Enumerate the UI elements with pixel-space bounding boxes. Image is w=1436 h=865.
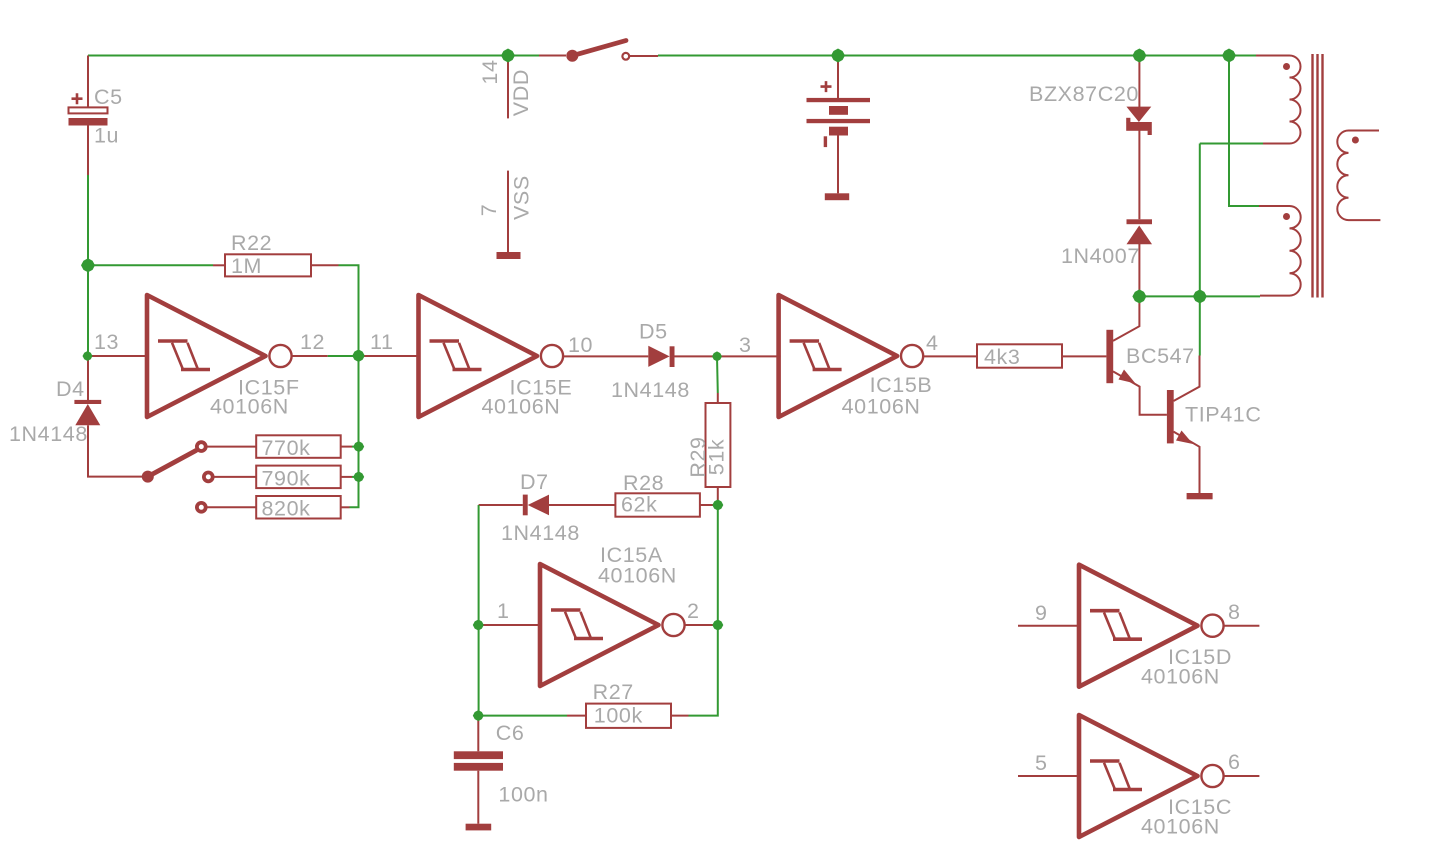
svg-text:3: 3 bbox=[739, 333, 752, 357]
svg-text:10: 10 bbox=[568, 333, 593, 357]
capacitor C5 top pin bbox=[87, 56, 89, 108]
junction VDD node bbox=[501, 49, 515, 63]
transformer T1 secondary winding bbox=[1337, 131, 1380, 221]
switch S1 contact circle bbox=[622, 53, 629, 60]
VSS pin 7 bbox=[507, 171, 509, 252]
wire winding 2 feed bbox=[1229, 56, 1259, 207]
transistor Q2 TIP41C base bar bbox=[1167, 390, 1174, 443]
junction R27/C6 node bbox=[473, 710, 484, 721]
svg-text:100n: 100n bbox=[498, 782, 548, 806]
junction rail/column node bbox=[1193, 289, 1207, 303]
inverter IC15C output pin 6 lead bbox=[1224, 775, 1260, 777]
capacitor C6 top pin bbox=[477, 716, 479, 752]
diode D5 cathode bar bbox=[670, 346, 675, 367]
resistor 770k left pin bbox=[208, 446, 257, 448]
svg-text:BC547: BC547 bbox=[1126, 344, 1195, 368]
diode D6 bottom pin bbox=[1138, 244, 1140, 296]
inverter IC15D output pin 8 lead bbox=[1224, 625, 1260, 627]
wire pin12 to node bbox=[328, 355, 359, 357]
wire top rail right bbox=[658, 55, 1256, 57]
svg-text:9: 9 bbox=[1035, 601, 1048, 625]
junction D5/pin3 node bbox=[712, 351, 722, 361]
zener diode BZX87C20 cathode bar with wings bbox=[1126, 122, 1152, 131]
svg-text:40106N: 40106N bbox=[1141, 815, 1220, 839]
transformer T1 winding 1 bbox=[1256, 56, 1301, 144]
inverter IC15A output pin 2 lead bbox=[685, 624, 718, 626]
resistor 4k3 right pin / base wire bbox=[1062, 355, 1106, 357]
transistor Q2 TIP41C emitter arrow bbox=[1176, 431, 1193, 445]
junction pin1 node bbox=[473, 620, 484, 631]
resistor 790k right pin bbox=[341, 476, 352, 478]
wire winding 1 return bbox=[1200, 143, 1263, 145]
svg-text:1N4148: 1N4148 bbox=[9, 422, 88, 446]
diode D7 left pin bbox=[479, 504, 523, 506]
battery B1 plate long 2 bbox=[807, 119, 871, 123]
svg-text:12: 12 bbox=[300, 330, 325, 354]
battery B1 top pin bbox=[837, 56, 839, 99]
svg-text:1N4148: 1N4148 bbox=[611, 378, 690, 402]
svg-text:TIP41C: TIP41C bbox=[1185, 403, 1262, 427]
inverter IC15C pin 5 lead bbox=[1018, 775, 1081, 777]
zener diode BZX87C20 top pin bbox=[1138, 56, 1140, 108]
junction pin13 node bbox=[83, 351, 93, 361]
inverter IC15E pin 11 lead bbox=[359, 355, 421, 357]
junction rail/collector node bbox=[1132, 289, 1146, 303]
resistor R27 right pin bbox=[671, 715, 689, 717]
wire bottom rail bbox=[1139, 295, 1260, 297]
svg-text:VDD: VDD bbox=[509, 69, 533, 116]
switch S1 right stub wire bbox=[630, 55, 659, 57]
transformer T1 secondary polarity dot bbox=[1352, 137, 1359, 144]
svg-text:13: 13 bbox=[94, 330, 119, 354]
resistor 820k right pin bbox=[341, 506, 350, 508]
inverter IC15F pin 13 lead bbox=[88, 355, 149, 357]
svg-text:11: 11 bbox=[370, 330, 394, 354]
diode D5 right pin bbox=[675, 355, 718, 357]
svg-text:790k: 790k bbox=[262, 466, 311, 490]
inverter IC15A pin 1 lead bbox=[479, 624, 542, 626]
battery B1 minus sign bbox=[824, 136, 827, 147]
capacitor C5 bottom pin bbox=[87, 126, 89, 176]
diode D4 bottom pin bbox=[88, 425, 142, 476]
inverter IC15E output pin 10 lead bbox=[563, 355, 648, 357]
inverter IC15D bbox=[1079, 565, 1224, 687]
transformer T1 winding 1 polarity dot bbox=[1283, 63, 1290, 70]
wire top rail left bbox=[88, 55, 539, 57]
svg-text:D5: D5 bbox=[639, 320, 668, 344]
transformer T1 core bbox=[1313, 54, 1323, 298]
diode D7 triangle bbox=[528, 495, 549, 516]
svg-text:R27: R27 bbox=[593, 680, 634, 704]
diode D6 1N4007 cathode bar bbox=[1127, 219, 1153, 224]
inverter IC15B pin 3 lead bbox=[717, 355, 781, 357]
junction 770k node bbox=[353, 441, 364, 452]
resistor R22 body bbox=[225, 254, 311, 276]
ground bar battery bbox=[825, 193, 849, 200]
resistor R27 body bbox=[586, 704, 671, 728]
svg-text:1u: 1u bbox=[94, 124, 119, 148]
inverter IC15F output pin 12 bbox=[292, 355, 328, 357]
svg-text:2: 2 bbox=[687, 599, 700, 623]
diode D7 right pin bbox=[549, 504, 615, 506]
junction battery node bbox=[831, 49, 845, 63]
wire feedback column pin12 node down to 820k row bbox=[350, 356, 359, 507]
transistor Q2 TIP41C emitter wire bbox=[1174, 432, 1200, 493]
wire R28 node down to pin2 node and R27 corner bbox=[689, 505, 718, 716]
svg-text:4k3: 4k3 bbox=[984, 345, 1020, 369]
rotary switch lever bbox=[148, 451, 196, 477]
capacitor C5 top plate bbox=[69, 107, 108, 113]
transistor Q1 BC547 collector wire bbox=[1113, 296, 1139, 341]
svg-text:1N4007: 1N4007 bbox=[1061, 244, 1140, 268]
junction C5/R22 node bbox=[81, 258, 95, 272]
resistor R27 left pin bbox=[567, 715, 586, 717]
svg-text:820k: 820k bbox=[262, 497, 311, 521]
resistor 820k body bbox=[256, 496, 341, 519]
capacitor C6 plate 2 bbox=[454, 763, 503, 771]
battery B1 plate long 1 bbox=[807, 98, 871, 102]
junction 790k node bbox=[353, 471, 364, 482]
diode D4 top pin bbox=[87, 356, 89, 400]
wire pin1 node to R27 bbox=[479, 715, 567, 717]
svg-text:5: 5 bbox=[1035, 751, 1048, 775]
inverter IC15B bbox=[779, 295, 924, 417]
junction winding feed node bbox=[1222, 49, 1236, 63]
resistor R28 right pin bbox=[700, 504, 718, 506]
wire C5 to R22 node bbox=[87, 175, 89, 265]
svg-text:4: 4 bbox=[926, 331, 939, 355]
switch S1 left stub wire bbox=[539, 55, 566, 57]
resistor 820k left pin bbox=[208, 506, 257, 508]
VDD pin 14 bbox=[507, 56, 509, 119]
inverter IC15D pin 9 lead bbox=[1018, 625, 1081, 627]
svg-text:VSS: VSS bbox=[510, 175, 534, 220]
battery B1 bottom pin bbox=[837, 136, 839, 194]
svg-text:D4: D4 bbox=[56, 377, 85, 401]
transistor Q1 BC547 emitter wire bbox=[1113, 371, 1167, 414]
svg-text:14: 14 bbox=[478, 59, 502, 84]
resistor 790k left pin bbox=[215, 476, 257, 478]
diode D4 triangle bbox=[75, 404, 100, 425]
wire winding1 return column bbox=[1199, 144, 1201, 356]
svg-text:C6: C6 bbox=[496, 721, 525, 745]
svg-text:6: 6 bbox=[1228, 750, 1241, 774]
transformer T1 winding 2 polarity dot bbox=[1283, 213, 1290, 220]
rotary switch contact 1 bbox=[197, 442, 206, 451]
resistor R29 body bbox=[706, 403, 731, 487]
svg-text:D7: D7 bbox=[520, 470, 549, 494]
resistor R22 right pin bbox=[311, 264, 339, 266]
svg-text:C5: C5 bbox=[94, 85, 123, 109]
battery B1 plus sign bbox=[821, 81, 832, 92]
svg-text:40106N: 40106N bbox=[598, 564, 677, 588]
svg-text:IC15B: IC15B bbox=[870, 373, 933, 397]
transistor Q1 BC547 base bar bbox=[1106, 330, 1113, 383]
svg-text:7: 7 bbox=[477, 204, 501, 217]
capacitor C6 plate 1 bbox=[454, 751, 503, 759]
svg-text:1N4148: 1N4148 bbox=[501, 521, 580, 545]
resistor 770k body bbox=[256, 435, 341, 458]
svg-text:62k: 62k bbox=[621, 493, 657, 517]
wire R22 right to feedback column bbox=[339, 265, 359, 356]
transistor Q1 BC547 emitter arrow bbox=[1119, 370, 1136, 384]
rotary switch contact 2 bbox=[204, 473, 213, 482]
wire zener to 1N4007 bbox=[1138, 130, 1140, 219]
inverter IC15C bbox=[1079, 715, 1224, 837]
transformer T1 winding 2 bbox=[1259, 206, 1301, 296]
svg-text:BZX87C20: BZX87C20 bbox=[1029, 82, 1139, 106]
junction pin12/11 node bbox=[352, 349, 365, 362]
junction zener node bbox=[1132, 49, 1146, 63]
resistor R22 left pin bbox=[213, 264, 225, 266]
capacitor C5 bottom plate bbox=[69, 118, 108, 126]
resistor R28 body bbox=[615, 493, 700, 516]
resistor 790k body bbox=[256, 466, 341, 489]
svg-text:8: 8 bbox=[1228, 600, 1241, 624]
wire R22 node down to pin13 node bbox=[87, 265, 89, 356]
inverter IC15E bbox=[419, 295, 564, 417]
wire 790k to column bbox=[352, 476, 359, 478]
switch S1 lever bbox=[572, 41, 626, 56]
svg-text:51k: 51k bbox=[705, 439, 729, 475]
svg-text:1M: 1M bbox=[231, 254, 262, 278]
resistor R29 bottom pin bbox=[717, 487, 719, 505]
svg-text:R28: R28 bbox=[623, 471, 664, 495]
zener diode BZX87C20 triangle bbox=[1126, 107, 1151, 122]
diode D7 cathode bar bbox=[523, 495, 528, 516]
svg-text:40106N: 40106N bbox=[482, 395, 561, 419]
inverter IC15B output pin 4 lead bbox=[923, 355, 977, 357]
battery B1 plate short 1 bbox=[829, 106, 848, 115]
ground bar C6 bbox=[466, 824, 492, 831]
inverter IC15A bbox=[540, 564, 685, 686]
transistor Q2 TIP41C collector wire bbox=[1174, 356, 1200, 402]
svg-text:770k: 770k bbox=[262, 436, 311, 460]
svg-text:40106N: 40106N bbox=[842, 395, 921, 419]
wire D7 corner down to pin1 node bbox=[478, 505, 480, 716]
wire pin3 node down to R29 bbox=[716, 356, 719, 393]
battery B1 plate short 2 bbox=[829, 127, 848, 136]
rotary switch contact 3 bbox=[197, 503, 206, 512]
svg-text:R22: R22 bbox=[231, 231, 272, 255]
diode D4 cathode bar bbox=[74, 400, 101, 404]
svg-text:100k: 100k bbox=[594, 703, 643, 727]
svg-text:40106N: 40106N bbox=[210, 395, 289, 419]
svg-text:40106N: 40106N bbox=[1141, 665, 1220, 689]
junction R29/R28 node bbox=[712, 500, 723, 511]
capacitor C6 bottom pin bbox=[477, 771, 479, 824]
inverter IC15F bbox=[147, 295, 292, 417]
wire 770k to column bbox=[352, 446, 359, 448]
diode D5 triangle bbox=[648, 346, 669, 367]
diode D6 1N4007 triangle bbox=[1127, 226, 1153, 245]
resistor R29 top pin bbox=[717, 393, 719, 403]
capacitor C5 plus sign bbox=[72, 93, 83, 104]
junction pin2 node bbox=[712, 620, 723, 631]
switch S1 pivot bbox=[566, 50, 578, 62]
svg-text:1: 1 bbox=[497, 599, 510, 623]
VSS supply bar bbox=[497, 252, 521, 259]
ground bar TIP41C bbox=[1187, 493, 1213, 499]
resistor 770k right pin bbox=[341, 446, 352, 448]
rotary switch pivot bbox=[142, 471, 154, 483]
wire R22 node to R22 left bbox=[88, 264, 213, 266]
resistor 4k3 body bbox=[977, 344, 1062, 367]
